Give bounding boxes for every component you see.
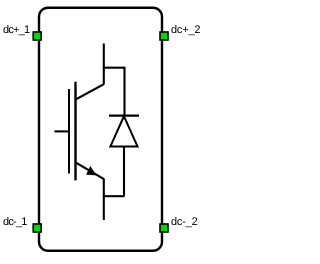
wire diode bottom lead — [123, 147, 125, 197]
port pad dc-_1 — [33, 224, 41, 232]
port pad dc-_2 — [160, 224, 168, 232]
IGBT Q1 collector diagonal — [76, 84, 104, 99]
diode D1 cathode bar — [109, 114, 139, 116]
IGBT Q1 gate lead — [55, 130, 70, 132]
diode D1 triangle — [110, 116, 137, 146]
svg-text:dc+_2: dc+_2 — [171, 24, 200, 36]
IGBT Q1 gate bar — [68, 89, 70, 174]
IGBT Q1 emitter diagonal — [76, 163, 104, 179]
port pad dc+_2 — [160, 32, 168, 40]
svg-text:dc-_1: dc-_1 — [3, 216, 27, 228]
port pad dc+_1 — [33, 32, 41, 40]
wire emitter stub — [103, 179, 105, 221]
subsystem block outline — [39, 8, 162, 251]
wire diode top lead — [123, 67, 125, 116]
wire collector stub — [103, 44, 105, 85]
IGBT Q1 emitter arrow — [86, 166, 96, 176]
wire bottom tee — [103, 195, 125, 197]
svg-text:dc+_1: dc+_1 — [3, 24, 30, 36]
IGBT Q1 body bar — [74, 82, 76, 181]
wire top tee — [103, 67, 125, 69]
svg-text:dc-_2: dc-_2 — [171, 216, 198, 228]
